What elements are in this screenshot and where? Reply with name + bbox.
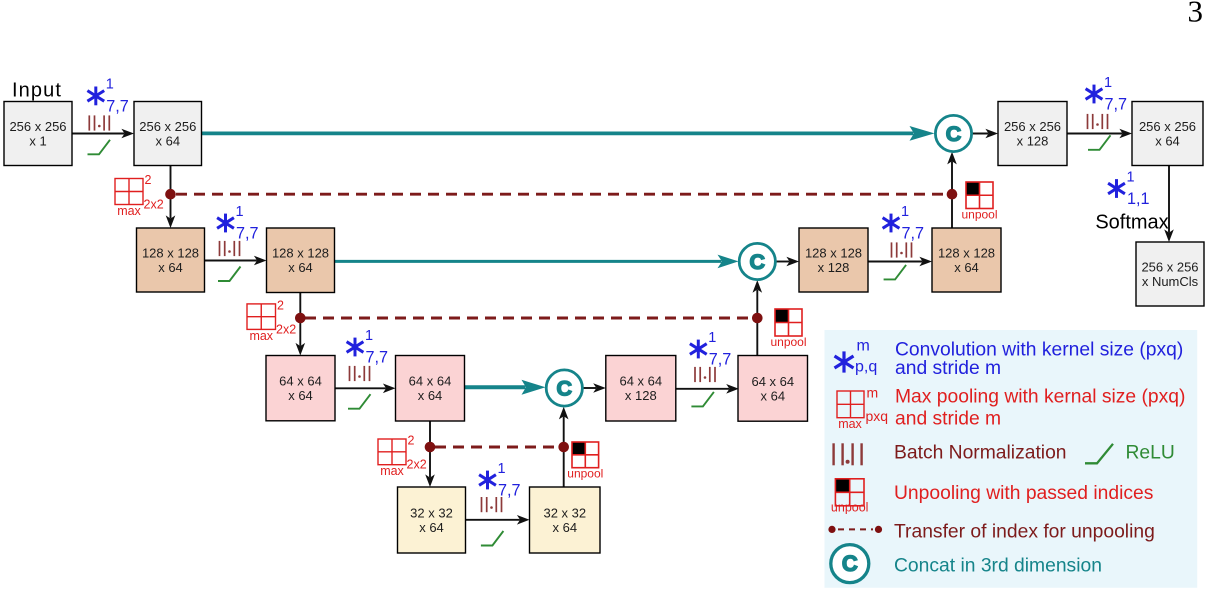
svg-text:1: 1 (1104, 75, 1112, 91)
svg-text:max: max (838, 417, 862, 431)
svg-text:1,1: 1,1 (1127, 190, 1150, 208)
svg-text:x 64: x 64 (288, 388, 313, 403)
svg-text:x 64: x 64 (419, 520, 444, 535)
svg-text:unpool: unpool (567, 467, 603, 481)
svg-text:Batch Normalization: Batch Normalization (894, 443, 1067, 464)
svg-text:1: 1 (106, 77, 114, 93)
svg-text:x 128: x 128 (625, 388, 657, 403)
svg-text:max: max (117, 204, 141, 218)
svg-text:1: 1 (708, 330, 716, 346)
svg-text:pxq: pxq (866, 408, 889, 424)
svg-text:128 x 128: 128 x 128 (142, 245, 199, 260)
svg-text:256 x 256: 256 x 256 (139, 119, 196, 134)
svg-text:x 64: x 64 (158, 260, 183, 275)
svg-text:and stride m: and stride m (895, 409, 1001, 430)
svg-text:Transfer of index for unpoolin: Transfer of index for unpooling (894, 522, 1155, 543)
svg-text:128 x 128: 128 x 128 (938, 245, 995, 260)
svg-text:1: 1 (236, 204, 244, 220)
svg-text:C: C (946, 122, 962, 146)
svg-text:x 64: x 64 (761, 388, 786, 403)
svg-text:7,7: 7,7 (709, 350, 732, 368)
svg-text:x 64: x 64 (1155, 134, 1180, 149)
svg-text:unpool: unpool (770, 335, 806, 349)
svg-text:x 128: x 128 (1017, 134, 1049, 149)
svg-text:unpool: unpool (831, 501, 869, 515)
svg-text:unpool: unpool (961, 208, 997, 222)
svg-text:max: max (249, 329, 273, 343)
svg-text:x 64: x 64 (553, 520, 578, 535)
svg-text:and stride m: and stride m (895, 358, 1001, 379)
svg-text:Concat in 3rd dimension: Concat in 3rd dimension (894, 556, 1102, 577)
svg-text:C: C (557, 377, 573, 401)
svg-text:1: 1 (901, 204, 909, 220)
svg-text:x 1: x 1 (29, 134, 46, 149)
svg-text:128 x 128: 128 x 128 (805, 245, 862, 260)
svg-text:x 64: x 64 (288, 260, 313, 275)
svg-text:7,7: 7,7 (106, 97, 129, 115)
svg-text:128 x 128: 128 x 128 (272, 246, 329, 261)
svg-text:x 64: x 64 (954, 260, 979, 275)
svg-text:7,7: 7,7 (1105, 95, 1128, 113)
svg-text:ReLU: ReLU (1126, 443, 1175, 464)
svg-text:3: 3 (1188, 0, 1204, 29)
svg-text:64 x 64: 64 x 64 (279, 374, 322, 389)
svg-text:256 x 256: 256 x 256 (1139, 119, 1196, 134)
svg-text:C: C (750, 250, 766, 274)
svg-text:2x2: 2x2 (144, 198, 164, 212)
svg-text:256 x 256: 256 x 256 (1141, 259, 1198, 274)
svg-text:1: 1 (1127, 169, 1135, 185)
svg-text:x NumCls: x NumCls (1142, 274, 1199, 289)
svg-text:2: 2 (408, 434, 415, 448)
svg-text:Unpooling with passed indices: Unpooling with passed indices (894, 483, 1153, 504)
svg-text:max: max (380, 464, 404, 478)
svg-text:Max pooling with kernal size (: Max pooling with kernal size (pxq) (895, 387, 1185, 408)
svg-text:64 x 64: 64 x 64 (751, 374, 794, 389)
svg-text:2: 2 (145, 173, 152, 187)
svg-text:m: m (867, 385, 879, 401)
svg-text:256 x 256: 256 x 256 (1004, 119, 1061, 134)
svg-text:x 64: x 64 (418, 388, 443, 403)
svg-text:2: 2 (277, 298, 284, 312)
svg-text:7,7: 7,7 (236, 224, 259, 242)
svg-text:2x2: 2x2 (407, 458, 427, 472)
svg-text:C: C (842, 551, 858, 576)
svg-text:x 128: x 128 (818, 260, 850, 275)
svg-text:7,7: 7,7 (498, 481, 521, 499)
svg-text:32 x 32: 32 x 32 (410, 505, 453, 520)
svg-text:64 x 64: 64 x 64 (409, 374, 452, 389)
svg-text:m: m (857, 338, 870, 355)
svg-text:7,7: 7,7 (366, 348, 389, 366)
svg-text:1: 1 (365, 328, 373, 344)
svg-text:32 x 32: 32 x 32 (543, 505, 586, 520)
svg-text:Softmax: Softmax (1095, 212, 1168, 234)
svg-text:256 x 256: 256 x 256 (9, 119, 66, 134)
svg-text:2x2: 2x2 (276, 322, 296, 336)
svg-text:64 x 64: 64 x 64 (619, 374, 662, 389)
svg-text:7,7: 7,7 (902, 224, 925, 242)
svg-text:1: 1 (498, 461, 506, 477)
svg-text:p,q: p,q (855, 359, 877, 376)
svg-text:Input: Input (12, 80, 62, 102)
svg-text:x 64: x 64 (156, 134, 181, 149)
